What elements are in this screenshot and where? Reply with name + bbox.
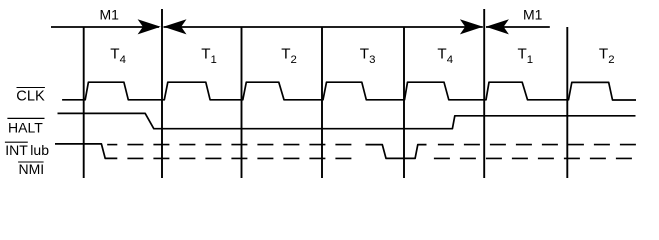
svg-text:M1: M1 <box>100 7 120 23</box>
wire: HALT waveform <box>58 113 636 128</box>
wire: INT/NMI upper dashed line (right span) <box>438 144 636 146</box>
svg-text:NMI: NMI <box>19 161 45 177</box>
label HALT with overline <box>7 117 44 119</box>
svg-text:1: 1 <box>527 54 533 66</box>
svg-text:INT: INT <box>5 142 28 158</box>
wire: cycle divider line x=567 <box>566 27 568 178</box>
wire: M1 boundary line x=484 (tall) <box>483 9 485 178</box>
arrowhead left-pointing at x=486 <box>486 19 509 34</box>
svg-text:2: 2 <box>608 54 614 66</box>
svg-text:CLK: CLK <box>16 88 45 104</box>
wire: cycle divider line x=322 <box>321 27 323 178</box>
svg-text:1: 1 <box>211 54 217 66</box>
svg-text:T: T <box>110 45 119 62</box>
wire: cycle divider line x=84 <box>83 27 85 178</box>
wire: INT active-low solid pulse (sampling dip) <box>366 145 427 159</box>
wire: CLK waveform <box>62 82 636 100</box>
svg-text:3: 3 <box>369 54 375 66</box>
wire: right M1 dimension line <box>486 26 550 28</box>
arrowhead right-pointing at x=161 <box>138 19 161 34</box>
wire: cycle divider line x=241.5 <box>241 27 243 178</box>
wire: INT/NMI upper dashed line (left span) <box>127 144 352 146</box>
svg-text:HALT: HALT <box>8 119 43 135</box>
svg-text:2: 2 <box>291 54 297 66</box>
svg-text:lub: lub <box>30 142 49 158</box>
arrowhead left-pointing at x=163.5 <box>163 19 186 34</box>
svg-text:T: T <box>518 45 527 62</box>
svg-text:M1: M1 <box>523 7 543 23</box>
wire: NMI lower dashed line (right span) <box>434 157 636 159</box>
wire: M1 boundary line x=162 (tall) <box>161 9 163 178</box>
svg-text:T: T <box>437 45 446 62</box>
label NMI with overline <box>18 161 43 163</box>
wire: left M1 dimension line <box>51 26 159 28</box>
arrowhead right-pointing at x=483 <box>460 19 483 34</box>
wire: INT solid high then fall to low (left) <box>55 144 117 159</box>
svg-text:T: T <box>281 45 290 62</box>
wire: cycle divider line x=404 <box>403 27 405 178</box>
svg-text:T: T <box>201 45 210 62</box>
svg-text:4: 4 <box>447 54 453 66</box>
wire: NMI lower dashed line (left span) <box>127 157 361 159</box>
label INT lub with overline over INT <box>5 141 28 143</box>
svg-text:T: T <box>599 45 608 62</box>
wire: middle dimension line T1..T4 span <box>164 26 483 28</box>
wire: INT/NMI upper dashed line left short dash <box>107 144 117 146</box>
svg-text:T: T <box>360 45 369 62</box>
label CLK with overline <box>17 87 45 89</box>
svg-text:4: 4 <box>120 54 126 66</box>
